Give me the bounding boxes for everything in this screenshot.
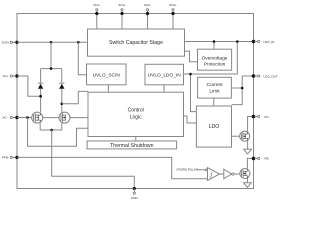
svg-text:LDO: LDO	[209, 124, 220, 130]
svg-text:SC1-: SC1-	[93, 3, 100, 7]
svg-text:GND: GND	[131, 196, 139, 200]
svg-text:Overvoltage: Overvoltage	[202, 55, 228, 61]
svg-text:SC2-: SC2-	[144, 3, 151, 7]
svg-text:LDO_OUT: LDO_OUT	[264, 74, 278, 78]
svg-text:SC1+: SC1+	[118, 3, 126, 7]
svg-text:Thermal Shutdown: Thermal Shutdown	[110, 143, 154, 149]
svg-text:AC+: AC+	[3, 74, 9, 78]
svg-text:UVLO_SCIN: UVLO_SCIN	[93, 72, 121, 78]
svg-text:PFB: PFB	[2, 156, 8, 160]
svg-text:Protection: Protection	[204, 62, 226, 68]
svg-text:Current: Current	[207, 82, 224, 88]
svg-text:PG: PG	[265, 115, 270, 119]
svg-text:Control: Control	[128, 108, 144, 114]
svg-text:AC-: AC-	[3, 116, 8, 120]
svg-text:Switch Capacitor Stage: Switch Capacitor Stage	[109, 40, 163, 46]
svg-text:Limit: Limit	[209, 89, 220, 95]
svg-text:SCIN: SCIN	[2, 40, 9, 44]
svg-text:UVLO_LDO_IN: UVLO_LDO_IN	[148, 72, 182, 78]
svg-text:SC2+: SC2+	[169, 3, 177, 7]
svg-text:PB: PB	[265, 157, 269, 161]
svg-text:V(TS/PD) FALLING: V(TS/PD) FALLING	[176, 168, 198, 172]
svg-text:Logic: Logic	[130, 114, 142, 120]
svg-text:LDO_IN: LDO_IN	[264, 40, 275, 44]
